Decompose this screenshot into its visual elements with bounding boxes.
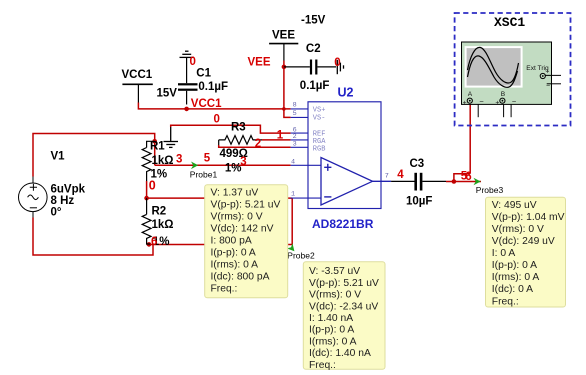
svg-text:C1: C1 (196, 68, 211, 80)
net labels red (149, 56, 472, 248)
resistor R2 (142, 198, 151, 244)
ext trig terminal (540, 73, 561, 83)
svg-text:0: 0 (334, 57, 340, 69)
svg-text:1%: 1% (225, 162, 242, 174)
svg-text:V(rms): 0 V: V(rms): 0 V (492, 224, 544, 235)
svg-text:R1: R1 (150, 141, 165, 153)
capacitor C2 (284, 60, 336, 75)
junction output (452, 179, 457, 184)
sine trace 1 (468, 47, 519, 83)
svg-text:V(dc): -2.34 uV: V(dc): -2.34 uV (309, 301, 378, 312)
label R1 (150, 141, 174, 181)
probe1 readout box (205, 185, 288, 298)
wire R2 bottom to pin1 net (147, 244, 293, 246)
svg-text:4: 4 (291, 159, 295, 167)
svg-text:1kΩ: 1kΩ (152, 155, 174, 167)
label R2 (152, 205, 174, 247)
junction VEE C2 (282, 65, 287, 70)
svg-text:Freq.:: Freq.: (211, 284, 238, 295)
svg-text:VEE: VEE (272, 29, 295, 41)
svg-text:1kΩ: 1kΩ (152, 219, 174, 231)
svg-text:−: − (546, 83, 550, 90)
svg-text:I(rms): 0 A: I(rms): 0 A (211, 260, 259, 271)
op-amp plus minus (324, 164, 331, 197)
svg-text:5: 5 (204, 153, 211, 165)
wire R1 bottom to R2 top (146, 181, 148, 198)
svg-text:I(rms): 0 A: I(rms): 0 A (492, 272, 540, 283)
junction C1 rail (184, 107, 189, 112)
terminal A minus stub (477, 104, 479, 117)
svg-text:I(dc): 800 pA: I(dc): 800 pA (211, 272, 270, 283)
svg-text:C2: C2 (306, 43, 321, 55)
svg-text:I(rms): 0 A: I(rms): 0 A (309, 336, 357, 347)
svg-text:V(rms): 0 V: V(rms): 0 V (309, 290, 361, 301)
svg-text:AD8221BR: AD8221BR (312, 217, 374, 231)
junction VCC rail crossing (282, 107, 286, 111)
svg-text:VS-: VS- (313, 115, 326, 123)
oscilloscope body (462, 42, 552, 104)
wire V1 top to node (33, 134, 155, 177)
svg-text:A: A (468, 91, 473, 98)
U2 pin numbers (291, 102, 389, 199)
sine trace 2 (468, 56, 518, 87)
capacitor C1 (178, 58, 198, 105)
ground right of C2 (337, 60, 343, 74)
svg-text:V(dc): 142 nV: V(dc): 142 nV (211, 224, 274, 235)
svg-text:-15V: -15V (301, 15, 326, 27)
ground near R1 (REF net) (164, 127, 179, 147)
probe2 arrow (287, 243, 295, 251)
svg-text:3: 3 (176, 154, 182, 166)
terminal B (500, 98, 505, 103)
svg-text:I(dc): 1.40 nA: I(dc): 1.40 nA (309, 348, 371, 359)
VEE power symbol (269, 44, 298, 61)
svg-text:V(p-p): 5.21 uV: V(p-p): 5.21 uV (309, 278, 379, 289)
VCC1 power symbol (122, 84, 152, 102)
oscilloscope XSC1 dashed box (455, 13, 571, 126)
svg-text:V1: V1 (51, 151, 66, 163)
svg-text:I: 1.40 nA: I: 1.40 nA (309, 313, 353, 324)
svg-text:V: 1.37 uV: V: 1.37 uV (211, 188, 259, 199)
svg-text:4: 4 (397, 169, 404, 181)
svg-text:0: 0 (214, 113, 220, 125)
terminal A (467, 98, 472, 103)
probe3 arrow (474, 178, 481, 186)
wire R3 left to pin3 RGB (219, 145, 291, 147)
wire node to pin4 (+IN) (155, 164, 291, 166)
svg-text:1: 1 (277, 130, 284, 142)
svg-text:8: 8 (293, 102, 297, 110)
probe2 readout box (303, 262, 385, 371)
svg-text:Freq.:: Freq.: (492, 296, 519, 307)
svg-text:0: 0 (190, 56, 196, 68)
probe1 arrow (191, 162, 198, 170)
wire scope A down (469, 104, 471, 173)
svg-text:U2: U2 (338, 86, 354, 100)
svg-text:0.1µF: 0.1µF (198, 81, 228, 93)
wire VCC1 rail to pin8 (138, 103, 290, 109)
svg-text:+: + (463, 100, 467, 107)
svg-text:6: 6 (465, 171, 471, 183)
svg-text:+: + (546, 68, 550, 75)
svg-text:I(p-p): 0 A: I(p-p): 0 A (492, 260, 537, 271)
svg-text:R2: R2 (152, 205, 167, 217)
capacitor C3 (391, 173, 446, 191)
svg-text:Probe3: Probe3 (476, 185, 504, 195)
svg-text:I(dc): 0 A: I(dc): 0 A (492, 284, 533, 295)
svg-text:I: 800 pA: I: 800 pA (211, 236, 252, 247)
svg-text:Probe1: Probe1 (190, 170, 218, 180)
svg-text:Freq.:: Freq.: (309, 360, 336, 371)
svg-text:I(p-p): 0 A: I(p-p): 0 A (309, 325, 354, 336)
svg-text:V(p-p): 5.21 uV: V(p-p): 5.21 uV (211, 200, 281, 211)
wire VEE stem down to pin5 (284, 61, 291, 118)
svg-text:3: 3 (293, 141, 297, 149)
svg-text:0.1µF: 0.1µF (300, 80, 330, 92)
U2 pin names (313, 107, 326, 154)
svg-text:RGB: RGB (313, 145, 326, 153)
wire R2 bottom to V1 minus (33, 218, 153, 256)
svg-text:2: 2 (255, 138, 261, 150)
ground above C1 (180, 51, 195, 57)
svg-text:1: 1 (291, 191, 295, 199)
label V1 (51, 151, 86, 219)
svg-text:10µF: 10µF (406, 196, 432, 208)
svg-text:+: + (495, 100, 499, 107)
svg-text:7: 7 (385, 173, 389, 181)
svg-text:15V: 15V (157, 88, 178, 100)
wire R3 right to pin2 RGA (262, 139, 291, 141)
svg-text:VS+: VS+ (313, 107, 326, 115)
svg-text:V: 495 uV: V: 495 uV (492, 200, 537, 211)
svg-text:8 Hz: 8 Hz (51, 195, 75, 207)
svg-text:VCC1: VCC1 (122, 69, 153, 81)
svg-text:0°: 0° (51, 207, 62, 219)
label R3 (220, 121, 248, 174)
svg-text:C3: C3 (410, 158, 425, 170)
oscilloscope screen (466, 47, 522, 87)
svg-text:V: -3.57 uV: V: -3.57 uV (309, 266, 360, 277)
resistor R3 (219, 136, 262, 145)
svg-text:0: 0 (149, 179, 156, 193)
svg-text:−: − (479, 97, 484, 106)
op-amp U2 box (308, 102, 381, 209)
svg-text:−: − (512, 97, 517, 106)
svg-text:V(dc): 249 uV: V(dc): 249 uV (492, 236, 555, 247)
svg-text:R3: R3 (231, 121, 246, 133)
wire output junction up to scope A (454, 174, 470, 182)
svg-text:V(p-p): 1.04 mV: V(p-p): 1.04 mV (492, 212, 565, 223)
svg-text:5: 5 (293, 110, 297, 118)
svg-text:I: 0 A: I: 0 A (492, 248, 516, 259)
wire C3 output to Probe3 (446, 181, 481, 183)
op-amp U2 triangle (321, 158, 391, 206)
svg-text:VCC1: VCC1 (191, 98, 222, 110)
U2 pin lines (291, 109, 321, 198)
wire midpoint to pin1 (-IN) (147, 197, 293, 199)
svg-text:B: B (501, 91, 506, 98)
voltage source V1 (19, 177, 48, 218)
svg-text:VEE: VEE (248, 57, 271, 69)
resistor R1 (142, 141, 155, 181)
svg-text:6: 6 (151, 236, 157, 248)
junction R1 R2 midpoint (144, 196, 149, 201)
junction R1 top (152, 139, 157, 144)
svg-text:6uVpk: 6uVpk (51, 184, 86, 196)
svg-text:V(rms): 0 V: V(rms): 0 V (211, 212, 263, 223)
probe3 readout box (486, 197, 566, 307)
wire pin1 down to Probe2 point (291, 198, 293, 244)
svg-text:Probe2: Probe2 (287, 251, 315, 261)
junction R2 bottom (147, 242, 152, 247)
svg-text:3: 3 (240, 156, 246, 168)
svg-text:XSC1: XSC1 (494, 15, 525, 30)
svg-text:I(p-p): 0 A: I(p-p): 0 A (211, 248, 256, 259)
wire ground to REF pin6 (171, 125, 291, 133)
terminal B stubs (504, 104, 512, 117)
